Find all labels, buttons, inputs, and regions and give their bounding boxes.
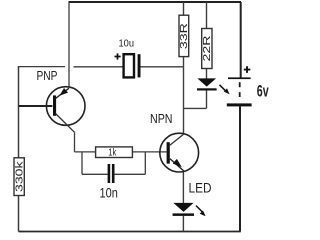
svg-text:10n: 10n xyxy=(100,184,118,200)
svg-text:330k: 330k xyxy=(14,160,25,192)
svg-text:NPN: NPN xyxy=(150,111,173,126)
svg-text:1k: 1k xyxy=(108,147,117,158)
svg-text:6v: 6v xyxy=(257,82,269,100)
svg-text:LED: LED xyxy=(189,181,212,196)
svg-text:10u: 10u xyxy=(119,37,135,49)
svg-text:22R: 22R xyxy=(202,36,213,62)
svg-text:PNP: PNP xyxy=(37,68,58,83)
svg-text:33R: 33R xyxy=(179,23,190,49)
